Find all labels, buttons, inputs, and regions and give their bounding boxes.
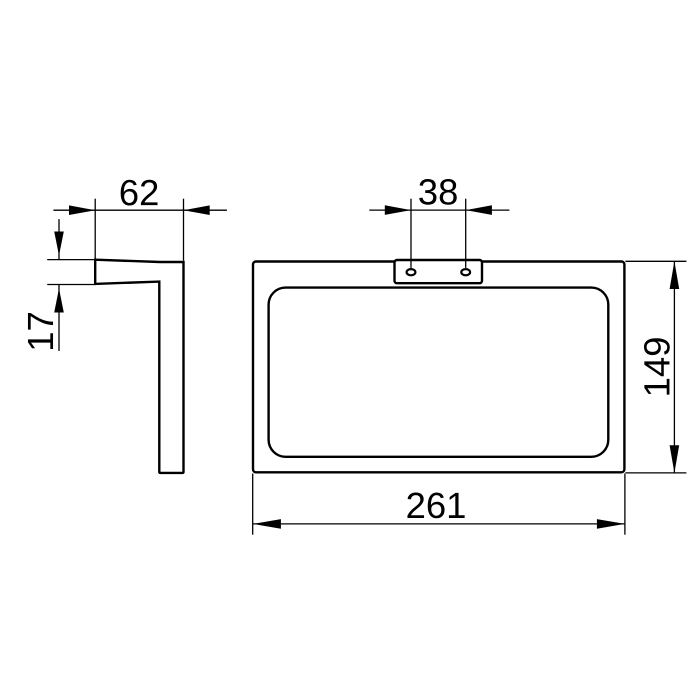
dimension 261 extension line left [252, 474, 254, 535]
dimension 62 arrow right [184, 205, 210, 215]
mounting hole right [461, 269, 470, 275]
dimension 149 arrow bottom (points down) [670, 445, 680, 473]
dimension 261 extension line right [624, 474, 626, 535]
dimension 38 arrow left [385, 205, 411, 215]
dimension 261 label [407, 492, 464, 518]
dimension 62 label [121, 180, 158, 206]
dimension 38 line [369, 209, 509, 211]
front view mounting plate [395, 260, 483, 283]
dimension 62 extension line right [183, 199, 185, 261]
dimension 17 arrow upper (points down) [54, 232, 64, 256]
dimension 17 extension line bottom [47, 284, 96, 286]
dimension 261 arrow left (points left) [253, 519, 281, 529]
dimension 261 arrow right (points right) [597, 519, 625, 529]
dimension 149 extension line bottom [625, 472, 686, 474]
dimension 38 extension line right [465, 199, 467, 268]
dimension 17 label (rotated) [28, 313, 53, 349]
dimension 38 arrow right [466, 205, 492, 215]
dimension 149 extension line top [625, 260, 686, 262]
side view profile (L-shaped bracket arm + vertical bar) [95, 260, 183, 473]
dimension 38 label [419, 179, 457, 205]
front view inner opening (rounded) [269, 288, 609, 457]
dimension 261 line [253, 523, 625, 525]
dimension 149 label (rotated) [644, 338, 670, 394]
dimension 38 extension line left [410, 199, 412, 268]
dimension 17 line lower segment [58, 285, 60, 351]
dimension 149 arrow top (points up) [670, 261, 680, 289]
dimension 62 line [53, 209, 227, 211]
front view outer frame [253, 262, 624, 473]
dimension 17 arrow lower (points up) [54, 289, 64, 313]
mounting hole left [407, 269, 416, 275]
dimension 17 extension line top [47, 259, 95, 261]
dimension 149 line [673, 261, 675, 473]
dimension 62 arrow left [69, 205, 95, 215]
dimension 62 extension line left [94, 199, 96, 259]
dimension 17 line upper segment [58, 219, 60, 259]
